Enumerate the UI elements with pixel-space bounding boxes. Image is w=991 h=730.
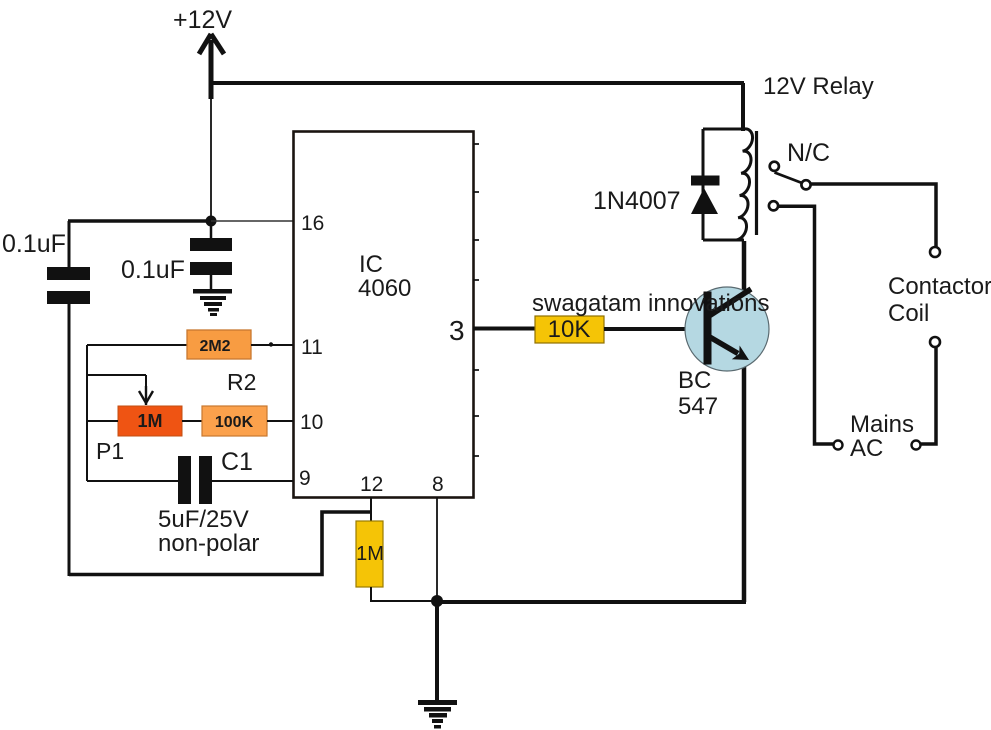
potentiometer P1 1M	[118, 406, 182, 436]
wire: left branch down to capacitor	[68, 221, 71, 267]
wire: supply drop to junction	[210, 99, 212, 221]
wire: junction to middle capacitor	[210, 224, 213, 238]
resistor R1 2M2	[187, 330, 251, 359]
wire: relay to collector / emitter to ground rail	[742, 241, 747, 602]
svg-text:8: 8	[432, 473, 444, 496]
diode D1 1N4007	[691, 176, 720, 215]
svg-text:1M: 1M	[356, 543, 384, 565]
svg-text:Contactor: Contactor	[888, 273, 991, 300]
wire: contactor coil to mains	[921, 347, 936, 444]
svg-text:547: 547	[678, 393, 718, 420]
relay RL1 coil	[737, 129, 753, 240]
diode D1 1N4007 branch wire	[702, 129, 705, 240]
wire: left capacitor to bottom-left rail	[68, 304, 71, 576]
contactor coil terminal (lower)	[930, 337, 940, 347]
wire: junction to left capacitor branch	[68, 219, 211, 223]
wire: 2M2 to pin 11	[251, 342, 293, 346]
svg-text:N/C: N/C	[787, 139, 830, 167]
svg-text:9: 9	[299, 467, 311, 490]
relay RL1 frame	[703, 129, 744, 240]
transistor Q1 emitter	[708, 336, 749, 360]
wire: C1 to pin 9	[212, 480, 293, 482]
svg-text:R2: R2	[227, 369, 256, 395]
svg-text:10: 10	[300, 411, 323, 434]
label BC 547	[678, 367, 718, 420]
transistor Q1 base bar	[704, 292, 712, 365]
wire: bottom-left rail	[69, 512, 371, 575]
svg-text:0.1uF: 0.1uF	[121, 256, 185, 284]
label Contactor Coil	[888, 273, 991, 327]
mains terminal (left)	[834, 441, 843, 450]
wire: left bus to 2M2 (pin 11 net)	[87, 344, 187, 346]
svg-text:16: 16	[301, 212, 324, 235]
svg-text:12V Relay: 12V Relay	[763, 73, 874, 100]
ground (main)	[418, 700, 457, 729]
svg-text:swagatam innovations: swagatam innovations	[532, 290, 769, 317]
wiper arrow onto P1	[139, 386, 153, 405]
wire: pin 3 to 10K	[473, 327, 535, 331]
svg-text:2M2: 2M2	[199, 338, 230, 355]
svg-text:1M: 1M	[137, 411, 162, 431]
wire: top rail down to relay	[741, 83, 745, 131]
svg-text:+12V: +12V	[173, 6, 232, 34]
wire: 100K to pin 10	[267, 420, 293, 422]
wire: N/C pole to contactor coil	[811, 184, 936, 247]
resistor R2 100K	[202, 406, 267, 436]
svg-text:4060: 4060	[358, 275, 411, 302]
svg-text:10K: 10K	[548, 316, 591, 343]
wire: wiper feed from bus	[87, 375, 146, 398]
svg-text:Mains: Mains	[850, 411, 914, 438]
wire: P1 to 100K	[182, 420, 202, 422]
svg-text:11: 11	[301, 336, 323, 359]
wire: pin 8 down to ground junction	[436, 497, 438, 601]
pin stubs on right edge of IC	[473, 144, 479, 456]
svg-text:3: 3	[449, 315, 465, 346]
svg-text:IC: IC	[359, 251, 383, 278]
capacitor C 0.1uF (left)	[47, 267, 90, 304]
wire: bus to C1 (pin 9 net)	[87, 480, 178, 482]
svg-text:12: 12	[360, 473, 383, 496]
wire: middle capacitor to ground	[210, 275, 213, 290]
svg-text:AC: AC	[850, 435, 883, 462]
wire: pin 12 stub down to 1M	[370, 497, 372, 521]
svg-text:0.1uF: 0.1uF	[2, 230, 66, 258]
wire: 1M bottom to ground junction	[371, 587, 437, 601]
relay RL1 core bar	[755, 131, 758, 235]
transistor Q1 collector	[709, 289, 751, 316]
svg-text:Coil: Coil	[888, 300, 929, 327]
svg-text:5uF/25V: 5uF/25V	[158, 506, 249, 533]
transistor Q1 body	[685, 287, 769, 371]
wire: bus to P1 left	[87, 420, 118, 422]
IC U1 4060 body	[294, 132, 474, 498]
+12V supply arrow	[199, 34, 224, 99]
svg-text:C1: C1	[221, 448, 253, 476]
relay contact: common pole	[770, 162, 811, 190]
svg-text:1N4007: 1N4007	[593, 187, 681, 215]
relay contact: N/O throw	[769, 201, 778, 210]
label Mains AC	[850, 411, 914, 462]
svg-text:100K: 100K	[215, 414, 254, 431]
contactor coil terminal (upper)	[930, 247, 940, 257]
wire: top +12V rail	[210, 81, 744, 85]
wire: throw contact down to mains	[779, 206, 833, 444]
wire: 10K to transistor base	[604, 327, 706, 331]
label IC 4060	[358, 251, 411, 302]
svg-text:P1: P1	[96, 438, 124, 464]
capacitor C1 5uF	[178, 456, 212, 504]
ground (under middle capacitor)	[193, 289, 232, 316]
wire: left vertical bus	[86, 345, 88, 481]
wire: bottom rail to transistor emitter branch	[437, 600, 746, 604]
resistor R3 1M (vertical)	[356, 521, 384, 587]
wire: junction to pin 16	[211, 220, 293, 222]
label 5uF/25V non-polar	[158, 506, 259, 557]
svg-text:non-polar: non-polar	[158, 530, 259, 557]
svg-text:BC: BC	[678, 367, 711, 394]
resistor R4 10K	[535, 316, 604, 343]
node: ground junction	[431, 595, 443, 607]
wire: ground stem	[435, 601, 439, 701]
capacitor 0.1uF (middle)	[190, 238, 232, 275]
mains terminal (right)	[912, 441, 921, 450]
node: supply/cap junction	[206, 216, 217, 227]
